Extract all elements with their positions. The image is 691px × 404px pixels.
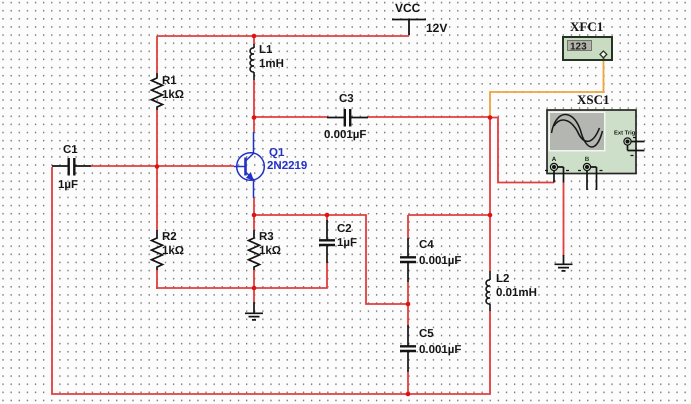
inductor L1 — [250, 44, 254, 80]
resistor R3 — [249, 230, 260, 270]
svg-text:C4: C4 — [419, 239, 434, 251]
wire L1 leads — [253, 36, 255, 118]
svg-text:2N2219: 2N2219 — [267, 160, 307, 172]
svg-text:XFC1: XFC1 — [570, 19, 603, 34]
inductor L2 — [486, 271, 490, 311]
wire Q1 collector — [253, 117, 255, 132]
svg-text:1kΩ: 1kΩ — [259, 245, 281, 257]
wire C4 leads — [407, 215, 409, 304]
power VCC — [392, 20, 426, 36]
instrument XSC1 oscilloscope — [545, 110, 645, 190]
wire L2 upper lead — [489, 215, 491, 271]
wire C1 right lead — [91, 165, 157, 167]
svg-text:C1: C1 — [63, 144, 78, 156]
capacitor C1 — [52, 158, 91, 176]
junction node L1 top — [252, 34, 257, 39]
svg-text:1kΩ: 1kΩ — [162, 89, 184, 101]
svg-text:123: 123 — [570, 42, 587, 53]
junction node R1/C1 — [155, 164, 160, 169]
svg-text:1mH: 1mH — [259, 58, 284, 70]
wire R3 column and ground lead — [253, 215, 255, 302]
svg-text:C5: C5 — [419, 328, 434, 340]
svg-text:R3: R3 — [259, 231, 274, 243]
capacitor C2 — [319, 220, 335, 263]
wire emitter rail to C2 and riser to C4 bottom — [254, 215, 408, 304]
junction node C2 top — [325, 213, 330, 218]
svg-text:Ext Trig: Ext Trig — [614, 130, 636, 137]
svg-text:12V: 12V — [426, 21, 447, 35]
junction node C4/C5 — [406, 302, 411, 307]
wire left rail and bottom rail and L2 lower lead — [52, 167, 490, 394]
scope trace inner — [554, 120, 600, 141]
svg-text:0.001µF: 0.001µF — [419, 255, 461, 267]
wire Q1 base from node — [157, 165, 234, 167]
junction node collector/C3 — [252, 115, 257, 120]
svg-text:R2: R2 — [162, 231, 177, 243]
junction node R3/ground — [252, 286, 257, 291]
junction node C5 bottom — [406, 392, 411, 397]
svg-text:A: A — [552, 156, 557, 163]
svg-text:B: B — [585, 156, 590, 163]
wire top rail VCC to R1/L1 — [157, 35, 409, 37]
junction node L2 top — [488, 213, 493, 218]
scope terminal A — [545, 156, 569, 183]
instrument XFC1 frequency counter — [563, 37, 612, 61]
svg-text:0.01mH: 0.01mH — [496, 287, 537, 299]
wire C3 left — [254, 116, 328, 118]
capacitor C3 — [327, 109, 368, 127]
wire C4 top rail — [408, 214, 490, 216]
wire C5 leads — [407, 304, 409, 394]
junction node C3/scope — [488, 115, 493, 120]
svg-text:L1: L1 — [259, 44, 273, 56]
transistor Q1 — [234, 132, 264, 198]
wire Q1 emitter to node — [253, 198, 255, 215]
svg-text:1kΩ: 1kΩ — [162, 245, 184, 257]
svg-text:L2: L2 — [496, 273, 509, 285]
svg-text:1µF: 1µF — [58, 179, 78, 191]
svg-text:0.001µF: 0.001µF — [324, 129, 366, 141]
wire scope channel A signal — [490, 118, 554, 183]
capacitor C5 — [400, 325, 416, 372]
svg-text:0.001µF: 0.001µF — [419, 344, 461, 356]
ground G1 below R3 — [245, 302, 263, 320]
wire scope A minus to ground — [563, 183, 565, 257]
svg-text:VCC: VCC — [395, 1, 421, 15]
scope trace outer — [552, 114, 603, 146]
scope terminal B — [578, 156, 603, 190]
junction node emitter/R3 — [252, 213, 257, 218]
wire lower mid rail R2 to C2 — [156, 215, 327, 288]
wire orange XFC1 to C3 node — [490, 60, 604, 117]
scope terminal Ext Trig — [614, 130, 645, 156]
svg-text:Q1: Q1 — [269, 147, 285, 159]
wire R1 column — [156, 36, 158, 289]
resistor R1 — [152, 73, 163, 110]
svg-text:XSC1: XSC1 — [577, 92, 610, 107]
capacitor C4 — [400, 238, 416, 282]
svg-text:C2: C2 — [337, 223, 352, 235]
svg-text:C3: C3 — [339, 93, 354, 105]
resistor R2 — [152, 230, 163, 270]
wire riser C3 node to L2 node — [489, 117, 491, 215]
wire C3 right — [367, 116, 490, 118]
svg-text:R1: R1 — [162, 75, 177, 87]
ground G2 below scope — [555, 255, 573, 271]
svg-text:1µF: 1µF — [337, 237, 357, 249]
